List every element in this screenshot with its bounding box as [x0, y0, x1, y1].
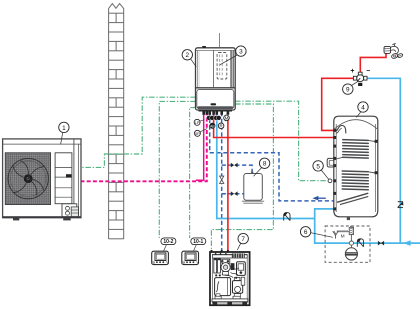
svg-text:−: − [366, 68, 370, 75]
svg-text:M: M [341, 234, 345, 240]
svg-text:LP: LP [195, 120, 200, 125]
svg-text:4: 4 [361, 104, 365, 111]
svg-text:+: + [350, 68, 354, 75]
svg-text:3: 3 [239, 49, 243, 56]
svg-text:M: M [225, 116, 229, 121]
svg-text:0P: 0P [195, 131, 200, 136]
svg-text:10-1: 10-1 [193, 239, 203, 245]
svg-text:9: 9 [346, 87, 350, 94]
svg-text:5: 5 [316, 163, 320, 170]
svg-text:10-2: 10-2 [163, 239, 173, 245]
svg-text:2: 2 [186, 52, 190, 59]
svg-text:AB: AB [210, 124, 215, 128]
svg-text:6: 6 [304, 229, 308, 236]
svg-text:7: 7 [241, 236, 245, 243]
svg-text:R: R [220, 124, 223, 129]
svg-text:1: 1 [62, 125, 66, 132]
svg-text:8: 8 [263, 161, 267, 168]
